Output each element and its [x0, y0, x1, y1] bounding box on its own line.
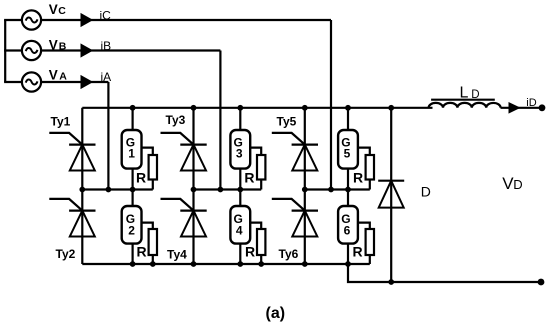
- terminal bottom: [538, 279, 545, 286]
- wire mid rail leg3: [305, 188, 370, 190]
- gate unit U4 G4: [230, 190, 250, 265]
- junction bottom bus Ty4: [191, 261, 197, 267]
- svg-text:Ty5: Ty5: [277, 115, 297, 129]
- thyristor Ty3: [161, 133, 207, 171]
- source VB: [22, 41, 41, 60]
- arrow iA: [81, 75, 94, 89]
- svg-text:1: 1: [128, 147, 135, 161]
- resistor R4: [250, 223, 265, 264]
- wire bottom bus drop: [348, 264, 541, 282]
- wire mid rail leg2: [194, 188, 262, 190]
- label LD: [460, 84, 480, 101]
- junction lower rail D: [388, 279, 394, 285]
- junction top bus G3: [237, 105, 243, 111]
- label G6: [341, 212, 350, 238]
- svg-text:D: D: [421, 184, 431, 200]
- svg-text:3: 3: [236, 147, 243, 161]
- svg-text:Ty6: Ty6: [279, 247, 299, 261]
- label VC: [49, 2, 66, 17]
- label Ty6: [279, 247, 299, 261]
- terminal top: [539, 104, 546, 111]
- svg-text:R: R: [136, 169, 146, 185]
- wire stub to VC: [4, 19, 21, 21]
- svg-text:Ty1: Ty1: [51, 115, 71, 129]
- label G4: [234, 212, 243, 238]
- label Ty2: [56, 247, 76, 261]
- junction mid rail phase C: [328, 187, 334, 193]
- junction bottom bus G4: [237, 261, 243, 267]
- junction top bus Ty3: [191, 105, 197, 111]
- label R5: [353, 169, 363, 185]
- svg-text:4: 4: [236, 223, 243, 237]
- wire mid rail leg1: [82, 188, 153, 190]
- svg-text:R: R: [353, 244, 363, 260]
- diode D: [378, 181, 404, 208]
- junction top bus G1: [130, 105, 136, 111]
- label Ty1: [51, 115, 71, 129]
- junction mid rail G1: [130, 187, 136, 193]
- junction bottom bus Ty6: [302, 261, 308, 267]
- svg-text:Ty3: Ty3: [166, 113, 186, 127]
- junction mid rail Ty5: [302, 187, 308, 193]
- thyristor Ty5: [272, 133, 318, 171]
- caption (a): [266, 305, 286, 322]
- resistor R2: [142, 223, 158, 264]
- resistor R6: [358, 223, 374, 264]
- junction top bus G5: [345, 105, 351, 111]
- thyristor Ty1: [49, 133, 95, 171]
- thyristor Ty6: [272, 199, 318, 237]
- resistor R1: [142, 148, 158, 190]
- junction bottom bus G2: [130, 261, 136, 267]
- wire output top: [501, 107, 542, 109]
- label G5: [341, 135, 350, 160]
- label iC: [100, 8, 112, 22]
- wire stub to VA: [4, 81, 21, 83]
- svg-text:A: A: [59, 71, 67, 83]
- label iA: [101, 70, 112, 84]
- resistor R3: [250, 148, 265, 190]
- gate unit U2 G2: [122, 190, 142, 265]
- label R6: [353, 244, 363, 260]
- junction bottom bus G6: [345, 261, 351, 267]
- gate unit U6 G6: [338, 190, 358, 265]
- label Ty5: [277, 115, 297, 129]
- svg-text:6: 6: [344, 223, 351, 237]
- junction top bus D: [388, 105, 394, 111]
- label VD: [502, 174, 522, 193]
- source VC: [22, 10, 41, 29]
- arrow iB: [81, 43, 94, 57]
- wire phase A drop: [107, 82, 109, 190]
- svg-text:(a): (a): [266, 305, 286, 322]
- gate unit U1 G1: [122, 108, 142, 190]
- junction mid rail phase B: [218, 187, 224, 193]
- wire leg1 vertical: [81, 108, 83, 264]
- arrow iC: [81, 13, 94, 27]
- svg-text:iA: iA: [101, 70, 112, 84]
- svg-text:D: D: [471, 89, 479, 101]
- arrow iD: [509, 102, 521, 114]
- label R3: [244, 169, 254, 185]
- svg-text:L: L: [460, 84, 469, 101]
- label VA: [49, 68, 67, 83]
- svg-text:R: R: [353, 169, 363, 185]
- junction mid rail G3: [237, 187, 243, 193]
- wire phase C drop: [330, 20, 332, 190]
- svg-text:2: 2: [128, 223, 135, 237]
- label D: [421, 184, 431, 200]
- junction mid rail Ty1: [79, 187, 85, 193]
- svg-text:V: V: [49, 68, 58, 83]
- label R1: [136, 169, 146, 185]
- junction top bus Ty5: [302, 105, 308, 111]
- wire leg2 vertical: [192, 108, 194, 264]
- wire phase C horizontal: [41, 19, 331, 21]
- svg-text:iC: iC: [100, 8, 112, 22]
- wire neutral vertical: [4, 20, 6, 82]
- svg-text:iB: iB: [101, 39, 112, 53]
- wire bottom DC bus: [82, 263, 370, 265]
- thyristor Ty4: [161, 199, 207, 237]
- label G1: [126, 135, 135, 160]
- source VA: [22, 72, 41, 91]
- svg-text:V: V: [49, 2, 58, 17]
- label iD: [526, 97, 536, 109]
- thyristor Ty2: [49, 199, 95, 237]
- svg-text:5: 5: [344, 147, 351, 161]
- label Ty3: [166, 113, 186, 127]
- gate unit U5 G5: [338, 108, 358, 190]
- wire leg3 vertical: [304, 108, 306, 264]
- junction mid rail G5: [345, 187, 351, 193]
- svg-text:R: R: [137, 244, 147, 260]
- label Ty4: [167, 248, 187, 262]
- label G2: [126, 212, 135, 238]
- gate unit U3 G3: [230, 108, 250, 190]
- wire top DC bus: [82, 107, 432, 109]
- inductor LD: [429, 100, 501, 108]
- label iB: [101, 39, 112, 53]
- label R2: [137, 244, 147, 260]
- wire phase A horizontal: [41, 81, 108, 83]
- junction bottom bus R4: [258, 261, 264, 267]
- junction mid rail phase A: [106, 187, 112, 193]
- wire phase B drop: [219, 51, 221, 190]
- junction mid rail Ty3: [191, 187, 197, 193]
- resistor R5: [358, 148, 374, 190]
- svg-text:R: R: [244, 169, 254, 185]
- junction bottom bus R2: [150, 261, 156, 267]
- diode D branch wire: [390, 108, 392, 282]
- label R4: [245, 244, 255, 260]
- svg-text:R: R: [245, 244, 255, 260]
- svg-text:Ty4: Ty4: [167, 248, 187, 262]
- wire phase B horizontal: [41, 49, 220, 51]
- label VB: [49, 37, 67, 52]
- label G3: [234, 135, 243, 160]
- svg-text:Ty2: Ty2: [56, 247, 76, 261]
- svg-text:C: C: [58, 5, 66, 17]
- svg-text:D: D: [513, 177, 522, 192]
- wire stub to VB: [4, 49, 21, 51]
- svg-text:iD: iD: [526, 97, 536, 109]
